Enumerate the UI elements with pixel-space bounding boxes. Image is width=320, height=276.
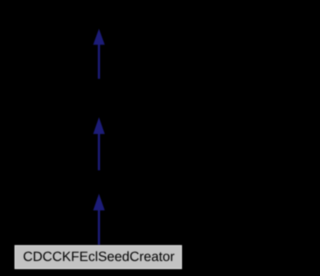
- node box: CDCCKFEclSeedCreator: [15, 246, 182, 269]
- inheritance graph for class CDCCKFEclSeedCreator: [0, 0, 197, 276]
- wire: inheritance arrow 1 shaft (topmost, to hidden base class): [98, 43, 100, 79]
- inheritance arrow 3 head: [93, 194, 105, 211]
- inheritance arrow 2 head: [93, 117, 105, 134]
- inheritance arrow 1 head: [93, 29, 105, 45]
- wire: inheritance arrow 3 shaft (bottom, from CDCCKFEclSeedCreator box): [98, 209, 100, 245]
- wire: inheritance arrow 2 shaft (middle): [98, 132, 100, 170]
- node label: CDCCKFEclSeedCreator: [24, 251, 175, 261]
